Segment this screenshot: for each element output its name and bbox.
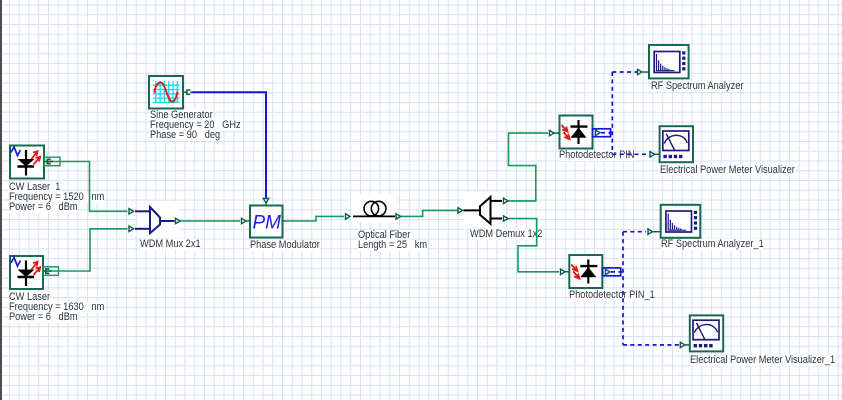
wire CW Laser 1 to WDM Mux input 1 [53,162,128,212]
port Optical Fiber input [346,214,351,219]
dashed wire Photodetector PIN_1 output junction [611,271,623,273]
Sine Generator box [149,76,183,109]
label Photodetector PIN_1 [569,290,655,301]
port WDM Demux output 1 [504,198,509,203]
wire Sine Generator to Phase Modulator top (electrical) [191,92,266,198]
wire WDM Demux out1 to Photodetector PIN [508,133,548,201]
port Phase Modulator output [283,220,287,222]
port WDM Mux input 1 [129,209,134,214]
port Phase Modulator input [242,218,251,223]
dashed wire Photodetector PIN output junction [601,132,612,134]
label CW Laser 1 [9,182,60,193]
port Sine Generator output [183,90,193,94]
port WDM Demux input [458,208,463,213]
label RF Spectrum Analyzer [651,81,743,92]
port Photodetector PIN_1 output (electrical connector) [603,268,621,276]
label CW Laser [9,292,50,303]
label Electrical Power Meter Visualizer [660,165,795,176]
port WDM Mux input 2 [129,226,134,231]
dashed wire to RF Spectrum Analyzer_1 [623,231,646,233]
port WDM Mux output [176,218,181,223]
WDM Demux 1x2 symbol [464,192,503,229]
wire Optical Fiber to WDM Demux input [400,210,458,216]
port Electrical Power Meter Visualizer input [650,152,660,157]
CW Laser 1 output port [45,157,61,166]
port RF Spectrum Analyzer_1 input [648,229,661,234]
CW Laser box [10,256,43,289]
RF Spectrum Analyzer box [649,45,689,78]
dashed wire to RF Spectrum Analyzer [612,71,637,73]
wire WDM Mux output to Phase Modulator input [180,220,240,222]
RF Spectrum Analyzer_1 box [661,205,701,238]
WDM Mux 2x1 symbol [135,202,179,239]
dashed wire to Electrical Power Meter Visualizer [612,153,648,155]
svg-text:PM: PM [253,213,282,234]
port Photodetector PIN input [550,130,560,135]
Photodetector PIN_1 box [569,255,602,288]
Electrical Power Meter Visualizer box [660,126,693,162]
dashed wire vertical branch to RF SA_1 / EPM visualizer_1 [622,232,624,345]
port Photodetector PIN_1 input [561,269,570,274]
CW Laser output port [43,267,59,276]
dashed wire to Electrical Power Meter Visualizer_1 [623,344,679,346]
label Optical Fiber [358,230,410,241]
label Electrical Power Meter Visualizer_1 [690,355,835,366]
wire Phase Modulator output to Optical Fiber [286,216,344,221]
label Photodetector PIN [559,150,635,161]
Photodetector PIN box [560,116,593,149]
Optical Fiber symbol [351,194,397,223]
wire WDM Demux out2 to Photodetector PIN_1 [508,219,559,272]
label WDM Demux 1x2 [470,229,542,240]
port Electrical Power Meter Visualizer_1 input [680,342,690,347]
port Optical Fiber output [396,214,401,219]
port WDM Demux output 2 [504,216,509,221]
label Phase Modulator [250,240,320,251]
port Photodetector PIN output (electrical connector) [593,129,611,137]
label Sine Generator [150,110,213,121]
wire CW Laser to WDM Mux input 2 [51,229,128,271]
dashed wire vertical branch to RF SA / EPM visualizer [611,72,613,154]
left window border [0,0,2,400]
label RF Spectrum Analyzer_1 [661,239,764,250]
label WDM Mux 2x1 [140,239,201,250]
port Phase Modulator top (electrical) [263,199,268,206]
CW Laser 1 box [10,146,44,179]
Phase Modulator box [250,206,283,238]
port RF Spectrum Analyzer input [638,69,650,74]
Electrical Power Meter Visualizer_1 box [690,315,723,351]
